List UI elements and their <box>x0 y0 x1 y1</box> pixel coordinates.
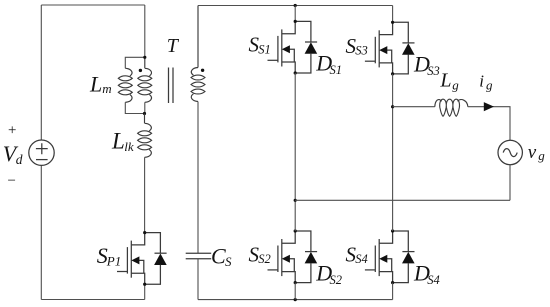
label Lg <box>439 70 459 93</box>
svg-text:S3: S3 <box>427 64 440 78</box>
svg-text:S2: S2 <box>330 273 343 287</box>
junction dot S_S4 drain node <box>391 229 394 232</box>
capacitor Cs top plate <box>186 252 212 254</box>
wire SP1 source to bottom rail <box>144 284 146 299</box>
svg-text:g: g <box>452 78 459 93</box>
inductor Lg <box>435 99 468 116</box>
label Lm <box>89 72 112 97</box>
label SS2 <box>249 242 271 266</box>
voltage source vg (grid) <box>498 140 522 164</box>
wire bridge top rail <box>198 5 393 7</box>
transistor S_S4 (MOSFET) <box>365 231 393 283</box>
label Llk <box>111 129 134 154</box>
svg-text:P1: P1 <box>106 254 121 269</box>
label Vd <box>3 141 23 167</box>
label SS1 <box>249 33 271 57</box>
junction dot bottom rail / left leg <box>294 298 297 301</box>
current arrow ig <box>484 102 494 111</box>
voltage source Vd <box>29 140 54 165</box>
wire Llk to SP1 drain <box>144 157 146 232</box>
junction dot S_S4 source node <box>391 281 394 284</box>
diode (body diode of S_P1) (body diode) <box>145 233 167 285</box>
junction dot left leg / return line <box>294 199 297 202</box>
svg-text:d: d <box>16 152 23 167</box>
svg-text:+: + <box>7 122 17 138</box>
wire primary top drop to transformer <box>144 5 146 57</box>
label SS4 <box>346 242 368 266</box>
label T <box>167 35 180 57</box>
junction dot S_S2 source node <box>294 281 297 284</box>
wire Lm bottom connector <box>125 102 144 113</box>
polarity dot secondary <box>201 69 204 72</box>
junction dot Lm bottom node <box>143 112 146 115</box>
wire left rail upper (Vd + lead) <box>40 5 42 140</box>
diode D_S3 (body diode) <box>393 22 415 74</box>
wire SS2 source to bottom rail <box>294 283 296 300</box>
junction dot S_S1 drain node <box>294 20 297 23</box>
label DS4 <box>413 260 440 287</box>
junction dot S_S3 source node <box>391 72 394 75</box>
wire left leg middle <box>294 73 296 231</box>
transistor S_P1 (MOSFET) <box>117 233 145 285</box>
svg-text:m: m <box>102 81 111 96</box>
junction dot S_S1 source node <box>294 71 297 74</box>
wire Lg branch <box>393 106 435 108</box>
svg-text:S4: S4 <box>427 273 440 287</box>
svg-text:lk: lk <box>124 139 134 154</box>
label DS3 <box>413 52 440 79</box>
wire primary winding to Lm bottom junction <box>144 102 146 113</box>
diode D_S1 (body diode) <box>295 21 317 73</box>
diode D_S4 (body diode) <box>393 231 415 283</box>
label Cs <box>211 244 232 270</box>
inductor Llk (leakage) <box>138 114 152 158</box>
svg-text:S4: S4 <box>355 252 368 266</box>
polarity dot primary <box>139 69 142 72</box>
wire Lg to vg top corner <box>468 107 510 141</box>
junction dot S_P1 drain node <box>143 231 146 234</box>
wire right leg top drop <box>392 6 394 23</box>
label SP1 <box>97 243 121 269</box>
transistor S_S1 (MOSFET) <box>268 21 296 73</box>
capacitor Cs bottom plate <box>186 258 212 260</box>
wire bridge bottom rail <box>198 299 393 301</box>
wire secondary winding down to Cs <box>197 102 199 254</box>
transistor S_S3 (MOSFET) <box>365 22 393 74</box>
wire right leg middle <box>392 74 394 231</box>
junction dot Lm top node <box>143 56 146 59</box>
wire Lm top connector <box>125 57 145 68</box>
wire return line to left leg <box>295 199 510 201</box>
svg-text:S1: S1 <box>258 42 271 56</box>
junction dot right leg / Lg branch <box>391 105 394 108</box>
svg-text:T: T <box>167 35 180 57</box>
transistor S_S2 (MOSFET) <box>268 231 296 283</box>
label DS2 <box>315 260 342 287</box>
svg-text:g: g <box>486 77 493 92</box>
wire top rail primary <box>41 4 145 6</box>
label + (Vd polarity) <box>7 122 17 138</box>
svg-text:i: i <box>479 72 484 91</box>
junction dot S_P1 source node <box>143 283 146 286</box>
label ig <box>479 72 493 93</box>
junction dot top rail / left leg <box>294 4 297 7</box>
svg-text:C: C <box>211 244 226 269</box>
wire left leg top drop <box>294 6 296 22</box>
svg-text:−: − <box>7 173 17 189</box>
svg-text:L: L <box>89 72 102 97</box>
junction dot S_S2 drain node <box>294 229 297 232</box>
svg-text:S3: S3 <box>355 44 368 58</box>
inductor Lm <box>118 68 132 102</box>
label vg <box>528 142 546 163</box>
svg-text:S2: S2 <box>258 252 271 266</box>
label DS1 <box>315 51 342 78</box>
transformer T primary winding <box>138 57 152 102</box>
transformer T core <box>169 68 174 104</box>
label SS3 <box>346 34 368 58</box>
svg-text:g: g <box>538 148 545 163</box>
diode D_S2 (body diode) <box>295 231 317 283</box>
svg-text:L: L <box>439 70 451 92</box>
wire left rail lower (Vd - lead) <box>40 165 42 299</box>
transformer T secondary winding <box>191 6 205 102</box>
svg-text:S1: S1 <box>330 63 343 77</box>
wire SS4 source to bottom rail <box>392 283 394 300</box>
svg-text:v: v <box>528 142 537 163</box>
svg-text:L: L <box>111 129 125 154</box>
wire vg bottom lead <box>509 165 511 201</box>
junction dot S_S3 drain node <box>391 21 394 24</box>
wire Cs to bottom rail <box>197 259 199 300</box>
svg-text:S: S <box>225 254 232 269</box>
label − (Vd polarity) <box>7 173 17 189</box>
wire primary bottom rail <box>41 299 144 301</box>
